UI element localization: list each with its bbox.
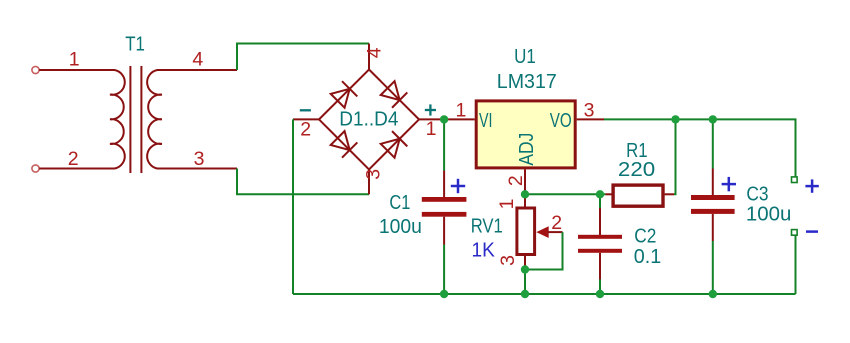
bridge AC top pin stub <box>368 44 370 70</box>
junction dot ADJ C2 <box>596 190 604 198</box>
wire bus up to minus output terminal <box>795 235 797 294</box>
minus output terminal square <box>792 230 798 236</box>
svg-text:1: 1 <box>69 49 80 71</box>
svg-text:4: 4 <box>192 49 203 71</box>
resistor R1 body <box>613 185 663 206</box>
capacitor C3 top plate <box>691 195 735 200</box>
capacitor C1 top lead <box>443 171 445 198</box>
bridge plus pin wire to U1 VI <box>419 118 475 120</box>
ADJ node wire to R1 and C2 <box>525 193 606 195</box>
svg-text:100u: 100u <box>746 204 792 226</box>
capacitor C3 bottom plate <box>691 209 735 214</box>
output minus mark <box>806 230 818 233</box>
transformer T1 primary winding <box>110 70 125 169</box>
junction dot RV1 wiper pin3 <box>521 265 529 273</box>
bridge plus sign <box>425 104 436 115</box>
junction dot rail C1 <box>440 115 448 123</box>
junction dot ADJ RV1 <box>521 190 529 198</box>
svg-text:100u: 100u <box>379 216 422 238</box>
wire RV1 pin3 to ground bus <box>524 270 526 295</box>
capacitor C1 bottom wire <box>443 245 445 295</box>
T1 pin 1 wire <box>39 69 114 71</box>
junction dot rail R1 <box>671 115 679 123</box>
svg-text:2: 2 <box>551 212 562 234</box>
T1 pin 4 wire <box>157 69 237 71</box>
plus output terminal square <box>792 177 798 183</box>
wire bridge minus down to ground bus <box>292 119 294 294</box>
capacitor C2 bottom plate <box>578 249 622 253</box>
junction dot bus C2 <box>596 290 604 298</box>
capacitor C3 bottom wire <box>712 241 714 294</box>
capacitor C1 bottom plate <box>422 212 467 217</box>
svg-text:U1: U1 <box>514 46 536 68</box>
svg-text:D1..D4: D1..D4 <box>339 109 398 131</box>
C1 plus mark <box>451 179 465 193</box>
svg-text:C2: C2 <box>634 226 656 248</box>
diode D1 top-left <box>330 81 357 108</box>
svg-text:1: 1 <box>455 100 466 122</box>
capacitor C1 top plate <box>422 197 467 202</box>
svg-text:2: 2 <box>505 175 527 186</box>
svg-text:T1: T1 <box>125 34 145 56</box>
svg-text:3: 3 <box>194 148 205 170</box>
svg-text:2: 2 <box>68 148 79 170</box>
RV1 wiper arrow <box>536 226 548 238</box>
wire T1 pin3 to bridge AC bottom <box>237 169 369 195</box>
svg-text:1K: 1K <box>472 240 496 262</box>
bridge AC bottom pin stub <box>368 169 370 194</box>
bridge minus pin stub <box>293 118 319 120</box>
capacitor C2 bottom wire <box>599 280 601 295</box>
capacitor C2 top plate <box>578 235 622 239</box>
capacitor C1 top wire <box>443 119 445 170</box>
R1 right lead <box>665 193 674 195</box>
capacitor C2 top lead <box>599 208 601 235</box>
potentiometer RV1 body <box>517 208 535 255</box>
diode D2 top-right <box>380 80 407 107</box>
wire T1 pin4 to bridge AC top <box>237 44 369 71</box>
capacitor C3 bottom lead <box>712 214 714 241</box>
svg-text:C1: C1 <box>389 192 410 214</box>
T1 pin 1 terminal circle <box>32 66 39 73</box>
diode D3 bottom-left <box>330 130 357 157</box>
svg-text:3: 3 <box>497 255 519 266</box>
capacitor C3 top lead <box>712 169 714 196</box>
U1 ADJ pin wire <box>524 169 526 194</box>
svg-text:3: 3 <box>363 169 385 180</box>
svg-text:1: 1 <box>496 199 518 210</box>
R1 left lead <box>606 193 612 195</box>
output plus mark <box>805 179 818 192</box>
capacitor C3 top wire <box>712 119 714 168</box>
svg-text:LM317: LM317 <box>497 71 557 93</box>
capacitor C1 bottom lead <box>443 217 445 245</box>
svg-text:ADJ: ADJ <box>516 133 538 166</box>
bridge minus sign <box>300 109 311 111</box>
T1 pin 2 wire <box>39 168 114 170</box>
svg-text:RV1: RV1 <box>471 216 503 238</box>
C3 plus mark <box>722 177 736 191</box>
RV1 wiper lead <box>548 231 563 233</box>
capacitor C2 bottom lead <box>599 253 601 280</box>
svg-text:VO: VO <box>550 110 572 132</box>
RV1 wiper wire to pin3 node <box>525 232 563 269</box>
junction dot bus C3 <box>709 290 717 298</box>
svg-text:C3: C3 <box>746 184 768 206</box>
RV1 pin 1 lead <box>524 194 526 206</box>
svg-text:3: 3 <box>584 100 595 122</box>
svg-text:4: 4 <box>364 47 386 58</box>
junction dot bus RV1 <box>521 290 529 298</box>
svg-text:2: 2 <box>300 119 311 141</box>
transformer T1 core <box>130 66 141 173</box>
svg-text:0.1: 0.1 <box>634 246 662 268</box>
T1 pin 3 wire <box>157 168 237 170</box>
svg-text:1: 1 <box>426 118 437 140</box>
junction dot rail C3 <box>709 115 717 123</box>
wire R1 right to output rail <box>674 119 676 194</box>
U1 pin 3 wire <box>577 118 604 120</box>
transformer T1 secondary winding <box>147 70 162 169</box>
T1 pin 2 terminal circle <box>32 165 39 172</box>
svg-text:VI: VI <box>479 110 493 132</box>
ground bus wire <box>293 293 796 295</box>
svg-text:220: 220 <box>618 159 655 181</box>
regulator U1 body <box>476 101 575 168</box>
diode D4 bottom-right <box>380 131 407 158</box>
output rail VO to plus terminal <box>604 119 796 176</box>
junction dot bus C1 <box>440 290 448 298</box>
bridge rectifier D1..D4 diamond <box>319 70 419 170</box>
capacitor C2 top wire <box>599 194 601 208</box>
RV1 pin 3 lead <box>524 256 526 270</box>
